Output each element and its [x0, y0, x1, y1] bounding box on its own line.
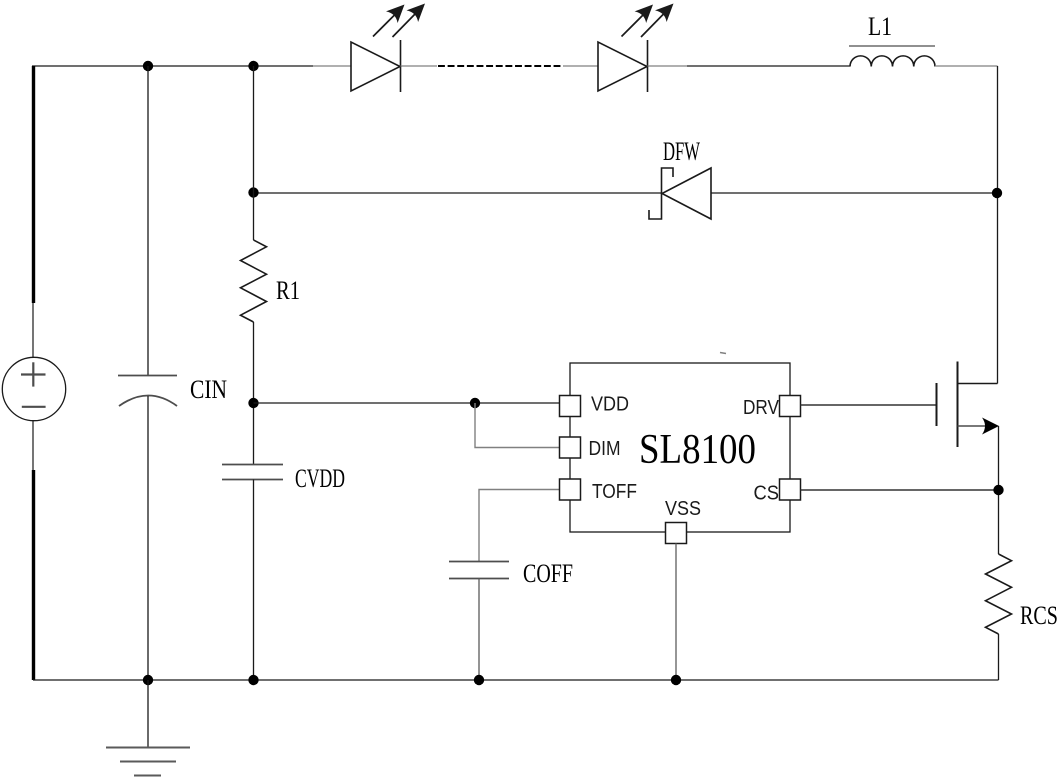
wire left rail thin	[32, 66, 34, 357]
wire Q1 source	[958, 425, 987, 427]
resistor RCS	[986, 554, 1012, 634]
diode DFW	[649, 168, 711, 219]
transistor Q1 source arrow	[982, 418, 999, 435]
svg-text:DRV: DRV	[743, 397, 780, 419]
svg-text:DFW: DFW	[663, 137, 700, 166]
node top rail CIN	[143, 61, 153, 71]
wire bottom rail	[33, 679, 999, 681]
node bottom COFF	[474, 675, 484, 685]
svg-text:L1: L1	[868, 12, 892, 41]
svg-text:DIM: DIM	[589, 438, 621, 460]
wire CIN column top	[147, 66, 149, 375]
pin DRV	[780, 396, 801, 417]
inductor L1 underline	[849, 45, 935, 47]
wire source to CS node	[998, 426, 1000, 554]
wire LED2 cathode stub	[648, 65, 688, 67]
wire CS rail	[801, 489, 999, 491]
wire top rail left	[32, 65, 313, 67]
node DFW left junction	[248, 187, 258, 197]
node VDD rail left	[248, 398, 258, 408]
wire LED2 to L1	[687, 65, 850, 67]
svg-text:TOFF: TOFF	[592, 481, 637, 503]
wire LED1 cathode stub	[401, 65, 438, 67]
wire DIM branch	[475, 403, 559, 448]
wire RCS to bottom rail	[998, 634, 1000, 680]
node bottom CVDD	[248, 675, 258, 685]
svg-text:R1: R1	[276, 276, 300, 305]
wire R1 column top	[253, 66, 255, 240]
transistor Q1 channel bar	[957, 362, 959, 448]
IC U1 top mark	[720, 353, 726, 354]
wire LED2 anode stub	[563, 65, 598, 67]
svg-text:SL8100: SL8100	[639, 427, 756, 473]
wire CIN column bottom	[147, 396, 149, 680]
wire TOFF branch	[479, 490, 559, 562]
wire right rail vertical	[997, 66, 999, 384]
wire DRV to gate	[801, 404, 937, 406]
wire DFW rail left	[254, 192, 662, 194]
svg-text:VSS: VSS	[665, 498, 701, 520]
pin DIM	[560, 437, 581, 458]
wire CVDD to bottom rail	[253, 480, 255, 681]
node DFW right junction	[992, 188, 1002, 198]
capacitor CVDD	[222, 465, 283, 480]
wire DFW rail right	[711, 192, 998, 194]
node bottom CIN	[143, 675, 153, 685]
wire L1 to right rail	[935, 65, 998, 67]
LED D1 light arrows	[373, 4, 425, 38]
pin VDD	[560, 396, 581, 417]
svg-text:COFF: COFF	[523, 559, 573, 588]
inductor L1	[850, 56, 935, 67]
node bottom VSS	[671, 675, 681, 685]
transistor Q1 gate bar	[936, 383, 938, 426]
wire LED1 anode stub	[313, 65, 351, 67]
wire VDD rail	[254, 402, 560, 404]
wire left rail below source thin	[32, 421, 34, 680]
pin CS	[780, 479, 801, 500]
svg-text:CIN: CIN	[190, 375, 227, 404]
node CS junction	[993, 485, 1003, 495]
capacitor COFF	[449, 562, 509, 579]
pin TOFF	[560, 479, 581, 500]
LED D2 light arrows	[622, 4, 674, 38]
wire left rail thick top	[32, 66, 35, 303]
wire Q1 drain	[958, 383, 998, 385]
wire VSS to bottom rail	[675, 544, 677, 681]
resistor R1	[241, 240, 267, 322]
svg-text:VDD: VDD	[591, 394, 629, 416]
IC U1 SL8100 box	[570, 363, 790, 532]
LED D2	[598, 40, 648, 92]
wire COFF to bottom rail	[478, 579, 480, 681]
wire left rail thick bottom	[32, 470, 35, 680]
wire dashed (more LEDs)	[438, 65, 563, 67]
ground	[106, 680, 190, 776]
pin VSS	[666, 523, 687, 544]
node DIM branch	[470, 398, 480, 408]
svg-text:CS: CS	[754, 483, 780, 505]
svg-text:CVDD: CVDD	[295, 464, 345, 493]
wire R1 to VDD node	[253, 322, 255, 464]
svg-text:RCS: RCS	[1020, 601, 1058, 630]
LED D1	[351, 40, 401, 92]
voltage source V1	[2, 357, 65, 420]
capacitor CIN	[118, 376, 177, 407]
node top rail R1	[248, 61, 258, 71]
